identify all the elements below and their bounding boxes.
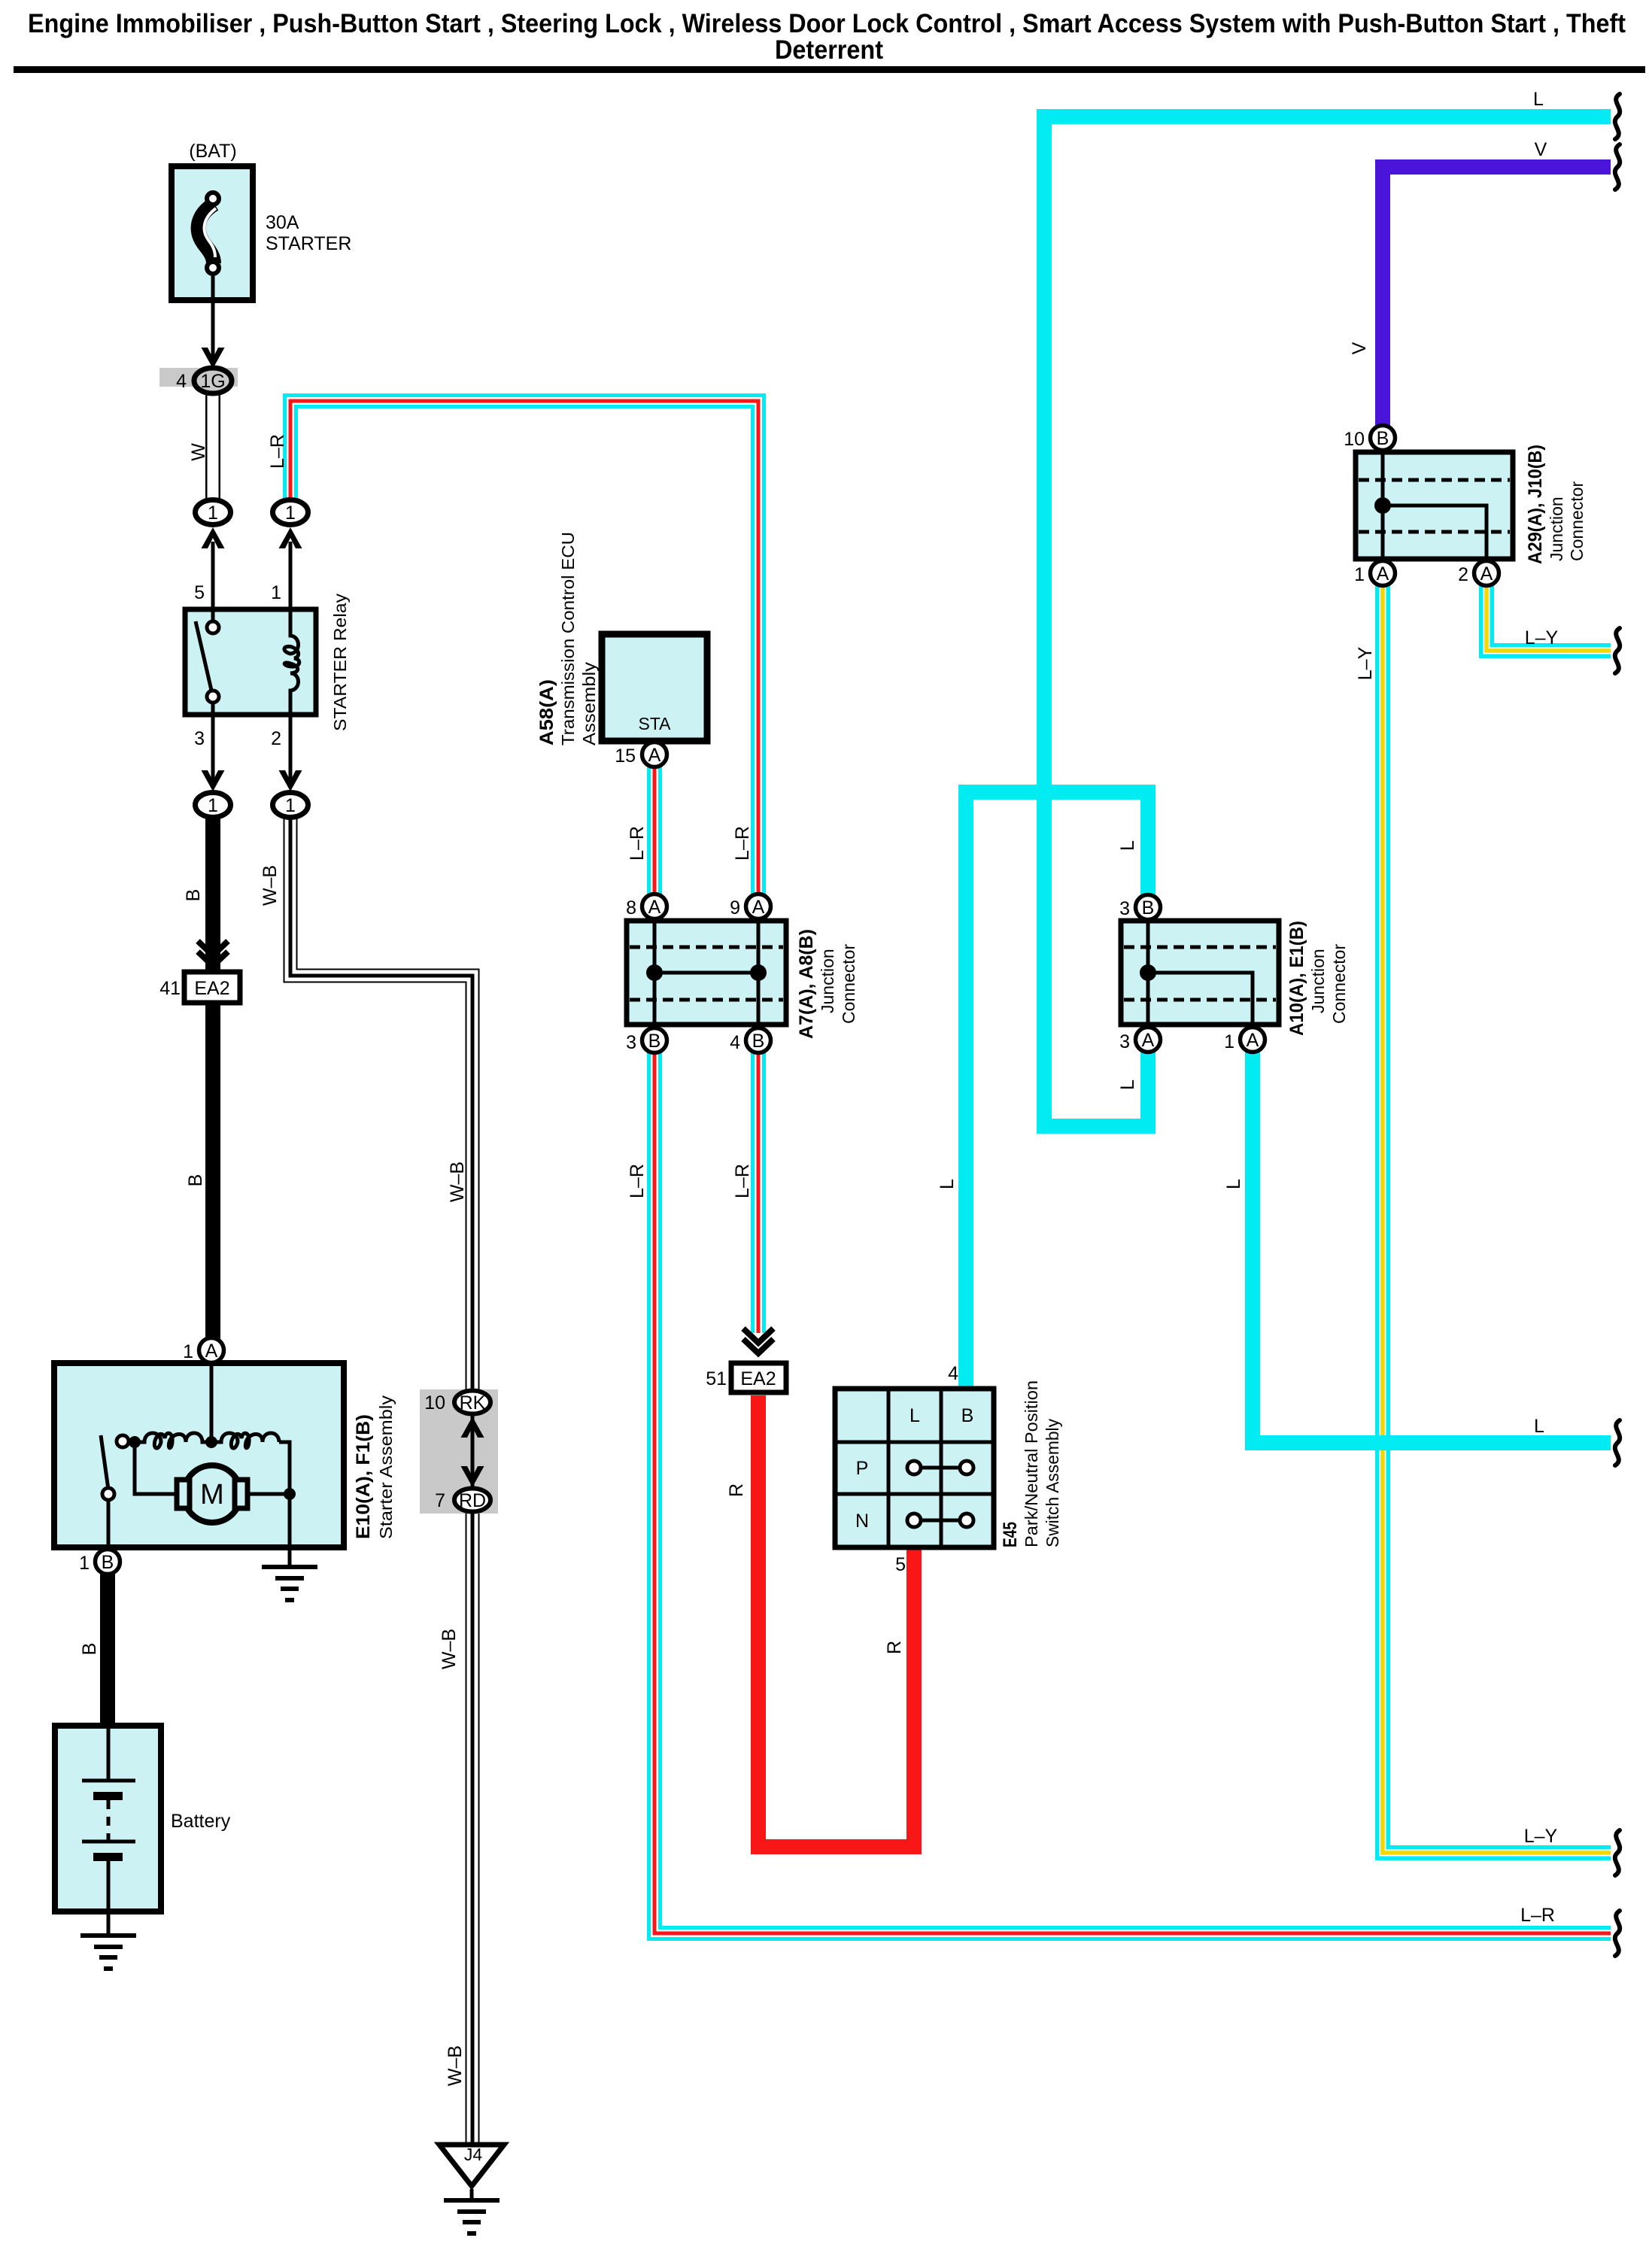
svg-text:L–Y: L–Y (1525, 627, 1559, 648)
svg-text:L–R: L–R (267, 434, 288, 469)
svg-text:1: 1 (183, 1341, 193, 1362)
fuse 30A STARTER box (172, 166, 253, 300)
svg-text:15: 15 (615, 745, 636, 767)
svg-text:1: 1 (208, 795, 218, 816)
starter assembly box (54, 1363, 344, 1547)
svg-text:1G: 1G (200, 371, 225, 392)
svg-text:5: 5 (895, 1554, 906, 1575)
wire relay pin 3 down (211, 715, 215, 782)
arrow down into right output oval (279, 770, 302, 791)
wire to relay pin 1 (289, 542, 293, 611)
gray band 1G (159, 368, 238, 387)
break L top (1615, 94, 1620, 139)
wire L from E45 pin 4 up to A10/E1 pin 3B (966, 792, 1148, 1393)
junction connector A7/A8 box (627, 921, 786, 1025)
svg-text:(BAT): (BAT) (189, 141, 236, 162)
svg-text:L: L (910, 1405, 920, 1426)
starter right elbow (279, 1442, 290, 1547)
wire W fuse to oval (white wire, double outline) (205, 390, 220, 503)
starter left branch to motor (135, 1442, 176, 1494)
svg-text:B: B (1377, 428, 1389, 449)
svg-text:W–B: W–B (445, 2045, 466, 2086)
svg-text:V: V (1535, 139, 1547, 160)
svg-text:L–R: L–R (627, 826, 648, 861)
svg-text:B: B (648, 1031, 661, 1052)
svg-text:1: 1 (208, 503, 218, 524)
A7/A8 dashed lines (630, 946, 783, 949)
oval connector 1 (relay 2 output) (273, 793, 308, 818)
svg-text:B: B (961, 1405, 974, 1426)
svg-text:L–R: L–R (1520, 1905, 1555, 1926)
break L mid (1615, 1420, 1620, 1465)
svg-text:R: R (726, 1483, 747, 1497)
relay switch (196, 621, 212, 694)
svg-text:3: 3 (1119, 898, 1130, 919)
junction connector A10/E1 box (1121, 921, 1279, 1025)
svg-text:L–Y: L–Y (1524, 1826, 1558, 1847)
svg-text:STARTER Relay: STARTER Relay (330, 593, 350, 731)
battery box (55, 1726, 161, 1911)
svg-text:4: 4 (176, 371, 187, 392)
wire V from break to A29 pin 10B (1383, 167, 1611, 430)
svg-text:Junction: Junction (1308, 949, 1328, 1013)
J4 ground triangle (439, 2145, 504, 2186)
svg-text:A: A (1142, 1030, 1155, 1051)
svg-text:5: 5 (194, 582, 205, 603)
svg-text:Connector: Connector (1567, 481, 1587, 561)
svg-text:Junction: Junction (1547, 496, 1566, 561)
svg-text:A7(A), A8(B): A7(A), A8(B) (796, 929, 817, 1039)
starter field coil 2 (211, 1433, 279, 1448)
ground at J4 (444, 2200, 500, 2233)
arrow up below right oval (279, 527, 302, 548)
svg-text:L: L (1533, 89, 1544, 110)
svg-text:L–R: L–R (732, 1164, 753, 1198)
oval RD (454, 1489, 490, 1512)
svg-text:R: R (884, 1641, 905, 1654)
svg-text:L: L (1117, 1079, 1138, 1090)
svg-text:B: B (1142, 897, 1155, 919)
svg-text:B: B (185, 1174, 206, 1187)
A7/A8 internal verticals (653, 921, 657, 1025)
svg-text:STA: STA (638, 714, 671, 733)
svg-text:B: B (79, 1643, 100, 1656)
svg-text:2: 2 (1458, 564, 1468, 585)
wire L from A10/E1 pin 1A down right to break (over the L-Y vertical) (1253, 1047, 1611, 1443)
svg-text:Engine Immobiliser , Push-Butt: Engine Immobiliser , Push-Button Start ,… (28, 9, 1626, 38)
svg-text:1: 1 (1224, 1031, 1234, 1052)
A29 elbow to pin 2A (1383, 506, 1486, 559)
svg-text:W–B: W–B (260, 865, 281, 906)
svg-text:3: 3 (194, 728, 205, 749)
wire L-R A7/A8 pin 3B down right to break (654, 1047, 1611, 1933)
A7/A8 pin circles (642, 894, 667, 919)
EA2-51 box (731, 1363, 786, 1392)
starter internal wire from pin A (210, 1363, 214, 1442)
fuse terminal circles (207, 193, 219, 205)
svg-text:4: 4 (730, 1032, 740, 1053)
A7/A8 bus bar (654, 971, 758, 975)
wire L-Y from A29 pin 2A down and right to break (1486, 581, 1611, 651)
break L-R bottom (1615, 1911, 1620, 1956)
svg-text:A10(A), E1(B): A10(A), E1(B) (1286, 921, 1307, 1036)
wire L big loop A10/E1 pin 3A down left up to top and right to break (1044, 117, 1611, 1126)
wire L-R A7/A8 pin 4B down to EA2-51 (751, 1047, 766, 1333)
svg-text:L–Y: L–Y (1355, 646, 1376, 680)
svg-text:41: 41 (159, 978, 181, 999)
oval connector 1 (left, to relay 5) (196, 500, 231, 525)
arrow up below left oval (202, 527, 225, 548)
svg-text:W–B: W–B (447, 1161, 468, 1202)
svg-text:1: 1 (271, 582, 281, 603)
battery internals (107, 1726, 111, 1781)
arrow into 1G (202, 348, 225, 369)
starter coil junction dots (129, 1436, 141, 1448)
E45 N contacts (914, 1519, 967, 1523)
svg-text:STARTER: STARTER (266, 233, 351, 254)
svg-text:J4: J4 (464, 2145, 483, 2164)
A10 pin circles (1136, 895, 1161, 920)
relay coil (284, 612, 299, 713)
starter pin B circle (96, 1550, 120, 1574)
double chevron into EA2-41 (198, 941, 228, 955)
E45 park/neutral switch box (835, 1389, 994, 1547)
wire L-R from oval 1 up over to A7/A8 pin 9A (290, 401, 758, 900)
motor M (184, 1465, 241, 1523)
EA2-41 box (184, 972, 240, 1003)
wire L-Y from A29 pin 1A down to break (drawn before crossing L wire) (1383, 581, 1611, 1853)
svg-text:1: 1 (285, 503, 296, 524)
arrow down to RD (461, 1466, 484, 1487)
svg-text:E10(A), F1(B): E10(A), F1(B) (353, 1414, 374, 1539)
wire between RK and RD (over gray) (471, 1402, 475, 1500)
svg-text:L–R: L–R (732, 826, 753, 861)
svg-text:A: A (1480, 563, 1493, 585)
svg-text:1: 1 (285, 795, 296, 816)
svg-text:E45: E45 (1000, 1522, 1021, 1547)
gray box RK/RD (420, 1389, 498, 1514)
svg-text:W: W (188, 443, 209, 461)
pin 15 A circle (642, 742, 667, 767)
break L-Y bottom (1615, 1830, 1620, 1875)
svg-text:2: 2 (271, 728, 281, 749)
svg-text:L: L (937, 1179, 958, 1189)
break V (1615, 144, 1620, 190)
svg-text:7: 7 (435, 1490, 445, 1511)
svg-text:EA2: EA2 (194, 978, 229, 999)
fuse element S-curve (199, 204, 214, 263)
svg-text:Battery: Battery (171, 1811, 231, 1832)
svg-text:L–R: L–R (627, 1164, 648, 1198)
svg-text:B: B (102, 1552, 114, 1573)
svg-text:W–B: W–B (439, 1629, 460, 1669)
STARTER relay box (185, 609, 316, 715)
svg-text:Park/Neutral Position: Park/Neutral Position (1022, 1380, 1041, 1547)
double chevron into EA2-51 (743, 1328, 773, 1343)
svg-text:B: B (752, 1031, 765, 1052)
svg-text:10: 10 (1344, 429, 1365, 450)
svg-text:Switch Assembly: Switch Assembly (1043, 1419, 1062, 1547)
wire fuse to 1G (211, 274, 215, 361)
svg-text:L: L (1223, 1179, 1244, 1189)
svg-text:L: L (1117, 840, 1138, 851)
svg-text:51: 51 (706, 1368, 727, 1389)
svg-text:A: A (648, 745, 661, 766)
svg-text:EA2: EA2 (740, 1368, 776, 1389)
svg-text:30A: 30A (266, 212, 299, 233)
svg-text:P: P (856, 1458, 869, 1479)
svg-text:Assembly: Assembly (579, 661, 599, 745)
arrow down into left output oval (202, 770, 225, 791)
svg-text:A: A (648, 897, 661, 918)
svg-text:A29(A), J10(B): A29(A), J10(B) (1525, 445, 1546, 564)
svg-text:A58(A): A58(A) (536, 679, 557, 745)
svg-text:3: 3 (1119, 1031, 1130, 1052)
title rule (14, 66, 1645, 73)
svg-text:M: M (200, 1479, 224, 1511)
svg-text:1: 1 (1354, 564, 1365, 585)
wire B starter pin B to battery (100, 1571, 115, 1727)
svg-text:L: L (1534, 1416, 1544, 1437)
wire relay pin 2 down (289, 715, 293, 782)
svg-text:N: N (855, 1511, 869, 1532)
svg-text:Transmission Control ECU: Transmission Control ECU (558, 532, 578, 745)
svg-text:A: A (752, 897, 765, 918)
starter ground wire (288, 1547, 292, 1567)
wire W-B from RD down to J4 (466, 1509, 480, 2145)
starter pin A circle (199, 1338, 224, 1363)
wire R from EA2-51 down right up to E45 pin 5 (758, 1395, 914, 1847)
wire single black between RK and RD (471, 1402, 475, 1500)
svg-text:8: 8 (626, 897, 636, 919)
wire B oval to EA2-41 (205, 818, 220, 972)
svg-text:4: 4 (948, 1363, 958, 1384)
motor right wire (247, 1492, 290, 1496)
wire L-R A58 pin 15A down to A7/A8 pin 8A (647, 758, 662, 900)
svg-text:V: V (1349, 342, 1370, 354)
junction connector A29/J10 box (1356, 452, 1513, 559)
svg-text:3: 3 (626, 1032, 636, 1053)
wire W-B from relay oval down right down to RK (290, 817, 472, 1393)
battery ground (80, 1936, 136, 1969)
oval connector 1 (right, to relay 1) (273, 500, 308, 525)
oval terminal 1G (194, 368, 232, 393)
starter switch (101, 1435, 108, 1489)
svg-text:RD: RD (459, 1490, 486, 1511)
wire to relay pin 5 (211, 542, 215, 611)
svg-text:Deterrent: Deterrent (775, 35, 883, 65)
svg-text:RK: RK (460, 1392, 486, 1413)
svg-text:Junction: Junction (818, 949, 837, 1013)
svg-text:Starter Assembly: Starter Assembly (376, 1395, 396, 1539)
svg-text:A: A (1377, 563, 1389, 585)
ground at starter (262, 1567, 317, 1600)
svg-text:10: 10 (424, 1392, 445, 1413)
svg-text:Connector: Connector (839, 944, 858, 1024)
wire B EA2-41 to starter pin A (205, 1001, 220, 1344)
starter field coil 1 (135, 1433, 211, 1448)
arrow up to RK (461, 1416, 484, 1438)
svg-text:B: B (183, 889, 204, 902)
svg-text:Connector: Connector (1329, 944, 1349, 1024)
A29 pin circles (1371, 426, 1395, 451)
A58 ECU box (602, 634, 707, 741)
svg-text:A: A (205, 1341, 218, 1362)
oval RK (454, 1391, 490, 1414)
E45 P contacts (914, 1466, 967, 1470)
oval connector 1 (relay 3 output) (196, 793, 231, 818)
break L-Y right top (1615, 628, 1620, 673)
svg-text:1: 1 (79, 1553, 90, 1574)
svg-text:A: A (1247, 1030, 1259, 1051)
svg-text:9: 9 (730, 897, 740, 919)
